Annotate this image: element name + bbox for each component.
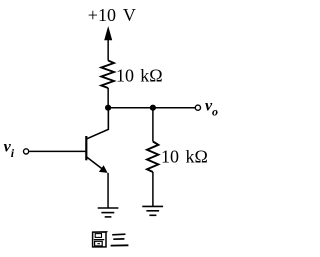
svg-text:10 kΩ: 10 kΩ [161,146,208,166]
caption character San (three) [111,234,129,245]
transistor Q1 base bar [85,136,87,160]
svg-text:10 kΩ: 10 kΩ [116,66,163,86]
wire node to R2 [152,108,154,142]
emitter arrowhead [99,165,108,173]
supply arrow [104,26,112,40]
wire R1 to collector node [107,88,109,108]
resistor R2 10k zigzag [147,142,158,173]
wire supply to R1 [107,37,109,61]
node junction dot at R2 top [150,105,156,111]
transistor Q1 collector lead [87,106,109,139]
output terminal circle [195,105,200,110]
emitter wire to ground [107,173,109,208]
wire collector node to output [108,107,195,109]
wire R2 to ground [152,172,154,206]
svg-text:+10 V: +10 V [88,5,136,25]
ground symbol under R2 [142,206,163,215]
transistor Q1 emitter lead with arrow [87,157,106,172]
resistor R1 10k zigzag [101,61,114,89]
svg-text:o: o [212,105,218,119]
node junction dot at collector [105,105,111,111]
input terminal circle [24,149,29,154]
ground symbol under emitter [98,208,119,217]
wire input to base [29,150,85,152]
caption character Tu (figure) [93,232,108,247]
svg-text:i: i [11,146,15,160]
